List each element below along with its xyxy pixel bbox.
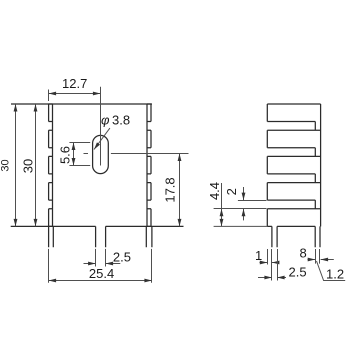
svg-text:30: 30 [0, 159, 12, 171]
svg-text:5.6: 5.6 [58, 146, 73, 164]
svg-text:30: 30 [21, 159, 36, 173]
svg-text:1.2: 1.2 [326, 267, 344, 282]
svg-text:φ3.8: φ3.8 [101, 113, 130, 128]
svg-text:2.5: 2.5 [113, 250, 131, 265]
svg-text:4.4: 4.4 [207, 182, 222, 200]
svg-text:25.4: 25.4 [89, 266, 114, 281]
svg-text:1: 1 [255, 248, 262, 263]
svg-text:2.5: 2.5 [289, 265, 307, 280]
svg-text:17.8: 17.8 [163, 177, 178, 202]
svg-text:12.7: 12.7 [62, 76, 87, 91]
svg-text:2: 2 [224, 188, 239, 195]
svg-text:8: 8 [300, 246, 307, 261]
